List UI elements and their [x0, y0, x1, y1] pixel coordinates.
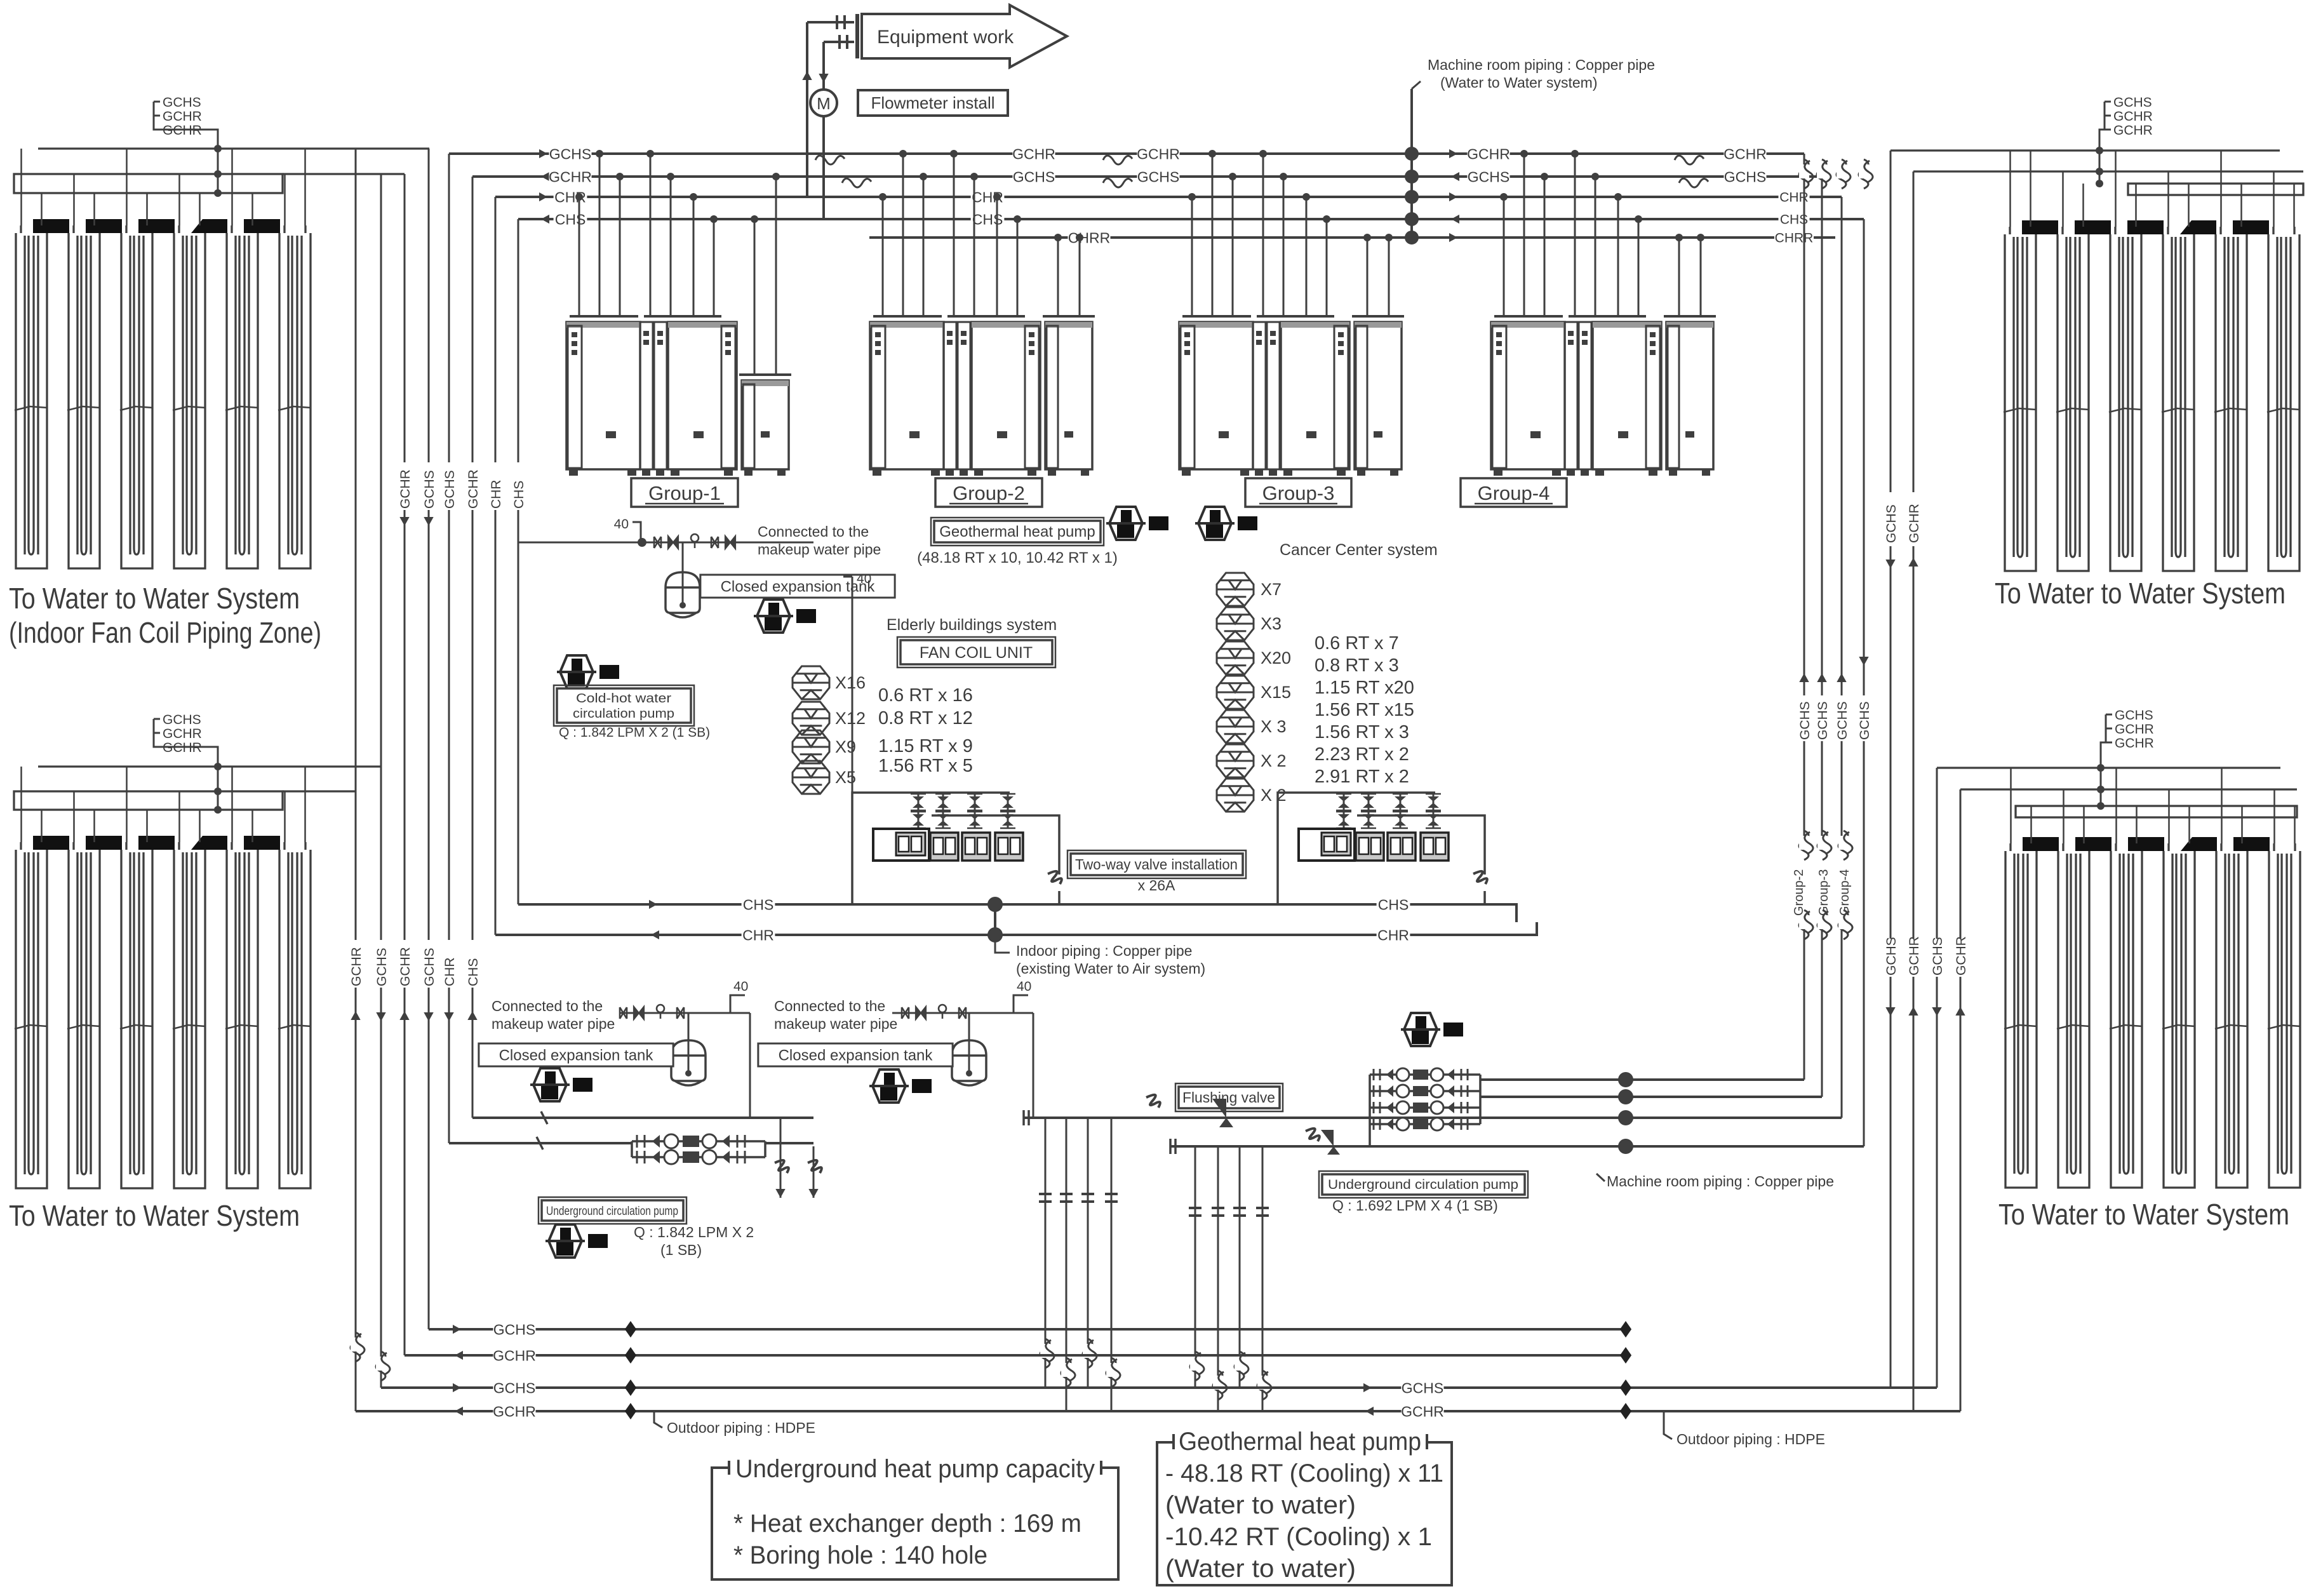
borehole field bottom-right: [1937, 708, 2301, 1188]
svg-text:makeup water pipe: makeup water pipe: [492, 1016, 615, 1032]
svg-text:GCHS: GCHS: [1402, 1379, 1443, 1396]
svg-text:CHS: CHS: [1378, 896, 1409, 913]
bus labels left: [539, 149, 547, 158]
svg-text:Two-way valve installation: Two-way valve installation: [1075, 856, 1238, 873]
svg-text:Closed expansion tank: Closed expansion tank: [499, 1047, 654, 1064]
svg-text:40: 40: [614, 517, 629, 532]
text outdoor piping right: [1664, 1411, 1672, 1439]
svg-text:GCHS: GCHS: [1013, 168, 1055, 185]
svg-text:Group-2: Group-2: [953, 482, 1025, 504]
wire underground header 2: [1170, 1145, 1864, 1148]
wire drops from header1 to bottom rows: [1045, 1118, 1047, 1388]
svg-text:Group-3: Group-3: [1817, 869, 1831, 916]
svg-text:Underground circulation pump: Underground circulation pump: [1328, 1177, 1518, 1192]
svg-text:Outdoor piping : HDPE: Outdoor piping : HDPE: [1677, 1431, 1825, 1447]
text machine room piping right: [1601, 1146, 1609, 1180]
svg-text:GCHR: GCHR: [466, 469, 481, 509]
wire bus CHRR row5: [869, 236, 1835, 239]
wire left header extensions: [449, 1142, 632, 1144]
svg-text:X12: X12: [835, 709, 866, 728]
svg-text:1.15 RT x20: 1.15 RT x20: [1315, 678, 1414, 698]
bottom row labels right: [1363, 1383, 1372, 1392]
rotated group labels on break: [1790, 848, 1805, 918]
label box Group-4: [1461, 478, 1567, 507]
pump left lower: [530, 1068, 570, 1101]
two-way valve assembly right: [1278, 793, 1435, 904]
svg-text:GCHS: GCHS: [1931, 937, 1945, 976]
svg-text:To Water to Water System: To Water to Water System: [1995, 577, 2286, 610]
svg-text:2.23 RT x 2: 2.23 RT x 2: [1315, 744, 1409, 765]
svg-text:GCHS: GCHS: [163, 713, 201, 727]
svg-text:Connected to the: Connected to the: [774, 998, 885, 1014]
svg-text:GCHR: GCHR: [1954, 936, 1969, 976]
svg-text:0.8 RT x 3: 0.8 RT x 3: [1315, 655, 1399, 676]
underground pump manifold left: [632, 1140, 765, 1143]
svg-text:2.91 RT x 2: 2.91 RT x 2: [1315, 767, 1409, 787]
svg-text:CHR: CHR: [742, 927, 774, 943]
bottom row labels left: [453, 1325, 461, 1334]
svg-text:CHS: CHS: [512, 481, 526, 509]
svg-text:GCHR: GCHR: [163, 727, 202, 741]
flushing valve label + valve: [1179, 1087, 1280, 1108]
heat pump group unit row Group-2: [870, 316, 1095, 476]
label box Group-1: [631, 478, 738, 507]
svg-text:GCHS: GCHS: [1857, 701, 1872, 740]
wire machine room lines right: [1480, 1078, 1804, 1081]
svg-text:Indoor piping : Copper pipe: Indoor piping : Copper pipe: [1016, 942, 1192, 959]
wire bottom row GCHS 1: [429, 1328, 1626, 1331]
pump above manifold right: [1401, 1013, 1440, 1046]
svg-text:Machine room piping : Copper p: Machine room piping : Copper pipe: [1607, 1173, 1834, 1190]
svg-text:CHR: CHR: [443, 958, 457, 987]
wire drops to Group-3: [1191, 197, 1193, 316]
svg-text:CHRR: CHRR: [1068, 229, 1110, 246]
svg-text:GCHS: GCHS: [2113, 95, 2152, 110]
svg-text:Equipment work: Equipment work: [877, 27, 1014, 48]
equipment work banner arrow: [857, 5, 1067, 67]
svg-text:Machine room piping : Copper p: Machine room piping : Copper pipe: [1428, 57, 1655, 73]
svg-text:GCHS: GCHS: [1835, 701, 1850, 740]
wire right corridor verticals: [1804, 154, 1805, 1080]
svg-text:GCHS: GCHS: [443, 470, 457, 509]
svg-text:CHS: CHS: [972, 211, 1003, 227]
svg-text:GCHR: GCHR: [163, 123, 202, 138]
label underground circulation pump left: [542, 1200, 683, 1221]
closed expansion tank 1: [682, 542, 684, 572]
svg-text:FAN COIL UNIT: FAN COIL UNIT: [920, 644, 1033, 662]
text outdoor piping left: [654, 1411, 662, 1428]
svg-text:* Boring hole : 140 hole: * Boring hole : 140 hole: [733, 1541, 987, 1569]
svg-text:GCHR: GCHR: [1012, 145, 1055, 162]
svg-text:makeup water pipe: makeup water pipe: [758, 541, 881, 558]
svg-text:GCHR: GCHR: [1467, 145, 1510, 162]
svg-text:GCHR: GCHR: [549, 168, 592, 185]
svg-text:X16: X16: [835, 673, 866, 692]
svg-text:GCHR: GCHR: [1907, 504, 1922, 543]
bus labels far right: [1675, 156, 1704, 164]
closed expansion tank 3: [968, 1013, 970, 1040]
svg-text:X 3: X 3: [1261, 717, 1287, 736]
svg-text:Geothermal heat pump: Geothermal heat pump: [1179, 1428, 1421, 1456]
svg-text:CHS: CHS: [466, 958, 481, 986]
wire drops to Group-1: [579, 197, 580, 316]
bus labels mid (between G1 and G2): [815, 156, 845, 164]
svg-text:Geothermal heat pump: Geothermal heat pump: [939, 523, 1095, 540]
label box Group-2: [935, 478, 1042, 507]
svg-text:(Water to water): (Water to water): [1165, 1555, 1356, 1583]
wire CHS indoor line: [518, 904, 1516, 922]
svg-text:GCHS: GCHS: [493, 1379, 535, 1396]
svg-text:To Water to Water System: To Water to Water System: [1998, 1198, 2289, 1231]
svg-text:Elderly buildings system: Elderly buildings system: [887, 616, 1057, 634]
svg-text:GCHR: GCHR: [398, 947, 413, 986]
svg-text:X20: X20: [1261, 648, 1291, 667]
svg-text:(1 SB): (1 SB): [660, 1242, 702, 1258]
svg-text:GCHR: GCHR: [1723, 145, 1767, 162]
svg-text:GCHS: GCHS: [1724, 168, 1766, 185]
svg-text:Underground circulation pump: Underground circulation pump: [546, 1205, 678, 1218]
svg-text:GCHS: GCHS: [1137, 168, 1179, 185]
text indoor piping note: [995, 935, 1010, 953]
node big junction dots on CHS/CHR: [987, 897, 1003, 912]
svg-text:GCHS: GCHS: [422, 470, 437, 509]
flowmeter M: [810, 90, 837, 116]
wire underground header 1: [1024, 1117, 1842, 1119]
svg-text:Group-2: Group-2: [1792, 869, 1806, 916]
cold-hot water circulation pump: [557, 655, 596, 688]
svg-text:CHR: CHR: [489, 480, 504, 509]
svg-text:GCHS: GCHS: [422, 948, 437, 986]
wire drops from header2 to bottom rows: [1195, 1146, 1196, 1388]
svg-text:GCHS: GCHS: [549, 145, 591, 162]
text machine room piping top note: [1412, 81, 1421, 89]
svg-text:Cancer Center system: Cancer Center system: [1280, 541, 1438, 559]
wire drops to Group-4: [1503, 197, 1505, 316]
two-way valve assembly supply riser 40: [852, 577, 853, 793]
svg-text:GCHR: GCHR: [349, 947, 364, 986]
heat pump group unit row Group-4: [1491, 316, 1716, 476]
svg-text:GCHR: GCHR: [1907, 936, 1922, 976]
label box Group-3: [1245, 478, 1351, 507]
svg-text:GCHR: GCHR: [163, 109, 202, 124]
node diamonds bottom rows: [625, 1321, 636, 1338]
svg-text:M: M: [817, 94, 831, 113]
wire bottom row GCHS 2: [381, 1386, 1937, 1389]
makeup water line lower-left: [620, 1012, 750, 1014]
svg-text:GCHR: GCHR: [493, 1403, 536, 1419]
svg-text:40: 40: [1017, 979, 1031, 994]
valve on left assembly return: [1048, 871, 1062, 884]
svg-text:0.6 RT x 7: 0.6 RT x 7: [1315, 633, 1399, 654]
svg-text:circulation pump: circulation pump: [573, 707, 674, 721]
rotated labels GCHS/GCHR quad near bottom-right field: [1883, 939, 1898, 977]
node central trunk: [1410, 89, 1413, 238]
svg-text:makeup water pipe: makeup water pipe: [774, 1016, 897, 1032]
fan coil hexagons right column: [1217, 573, 1254, 606]
note box geothermal heat pump: [1157, 1434, 1452, 1585]
svg-text:(Water to Water system): (Water to Water system): [1440, 74, 1598, 91]
svg-text:Connected to the: Connected to the: [492, 998, 603, 1014]
svg-text:GCHR: GCHR: [2115, 736, 2154, 751]
svg-text:GCHR: GCHR: [398, 469, 413, 509]
svg-text:Group-3: Group-3: [1262, 482, 1335, 504]
svg-text:GCHR: GCHR: [2113, 109, 2153, 124]
svg-text:Flushing valve: Flushing valve: [1182, 1089, 1275, 1106]
svg-text:1.15 RT x 9: 1.15 RT x 9: [878, 736, 973, 756]
svg-text:CHRR: CHRR: [1775, 231, 1814, 246]
svg-text:X3: X3: [1261, 614, 1282, 633]
svg-text:CHS: CHS: [743, 896, 774, 913]
svg-text:-10.42 RT (Cooling) x 1: -10.42 RT (Cooling) x 1: [1165, 1523, 1432, 1551]
label box geothermal heat pump: [934, 521, 1101, 542]
svg-text:GCHR: GCHR: [163, 741, 202, 755]
svg-text:(existing Water to Air system): (existing Water to Air system): [1016, 960, 1205, 977]
svg-text:GCHR: GCHR: [1401, 1403, 1444, 1419]
left corridor rotated labels upper: [397, 462, 412, 510]
borehole field top-right: [1891, 95, 2303, 571]
valve on right assembly return: [1473, 871, 1487, 884]
heat pump group unit row Group-3: [1179, 316, 1404, 476]
svg-text:To Water to Water System: To Water to Water System: [9, 582, 300, 615]
pump right lower: [869, 1070, 909, 1103]
svg-text:GCHS: GCHS: [1798, 701, 1812, 740]
svg-text:40: 40: [857, 572, 871, 586]
svg-text:CHS: CHS: [555, 211, 586, 227]
left corridor rotated labels lower + arrows: [348, 940, 363, 988]
pump below tank1: [754, 600, 793, 633]
pump symbol pair: [1106, 507, 1146, 540]
right corridor rotated labels (GC lines): [1797, 695, 1812, 741]
fan coil hexagons left column: [793, 666, 829, 699]
svg-text:GCHS: GCHS: [375, 948, 389, 986]
svg-text:Q : 1.842 LPM X 2 (1 SB): Q : 1.842 LPM X 2 (1 SB): [559, 725, 710, 740]
svg-text:X 2: X 2: [1261, 786, 1287, 805]
svg-text:GCHS: GCHS: [493, 1321, 535, 1338]
svg-text:(Indoor Fan Coil Piping Zone): (Indoor Fan Coil Piping Zone): [9, 616, 321, 649]
rotated labels GCHS/GCHR pair near top-right field: [1883, 492, 1898, 546]
svg-text:Connected to the: Connected to the: [758, 523, 869, 540]
svg-text:- 48.18 RT (Cooling) x 11: - 48.18 RT (Cooling) x 11: [1165, 1459, 1443, 1487]
svg-text:40: 40: [733, 979, 748, 994]
wire bus GCHS/GCHR row1: [449, 152, 1804, 155]
wire bus CHS row4: [518, 218, 1864, 220]
heat pump group unit row Group-1: [566, 316, 791, 476]
wire bottom row GCHR 2: [356, 1410, 1960, 1412]
svg-text:To Water to Water System: To Water to Water System: [9, 1199, 300, 1232]
svg-text:X7: X7: [1261, 580, 1282, 599]
svg-text:GCHR: GCHR: [1137, 145, 1180, 162]
svg-text:1.56 RT x 3: 1.56 RT x 3: [1315, 722, 1409, 742]
borehole field top-left: 6 vertical ground heat exchanger wells: [14, 95, 429, 568]
svg-text:GCHS: GCHS: [1884, 504, 1899, 543]
valve chain upper: [654, 537, 661, 548]
svg-text:X15: X15: [1261, 683, 1291, 702]
note box underground heat pump capacity: [712, 1461, 1118, 1579]
svg-text:Group-4: Group-4: [1838, 869, 1852, 916]
wire left corridor verticals: [355, 149, 357, 1411]
svg-text:GCHS: GCHS: [2115, 708, 2153, 723]
svg-text:Cold-hot water: Cold-hot water: [576, 692, 671, 706]
svg-text:0.6 RT x 16: 0.6 RT x 16: [878, 685, 973, 706]
closed expansion tank 2: [688, 1013, 690, 1040]
svg-text:(48.18 RT x 10, 10.42 RT x 1): (48.18 RT x 10, 10.42 RT x 1): [917, 549, 1118, 567]
wire drops to Group-2: [882, 197, 884, 316]
underground pump manifold right: [1370, 1073, 1480, 1076]
flowmeter install label box: [858, 90, 1008, 116]
svg-text:GCHS: GCHS: [1884, 937, 1899, 976]
svg-text:Flowmeter install: Flowmeter install: [871, 93, 994, 112]
svg-text:(Water to water): (Water to water): [1165, 1491, 1356, 1519]
svg-text:x 26A: x 26A: [1138, 877, 1175, 894]
pump underground left: [545, 1224, 585, 1257]
svg-text:GCHR: GCHR: [2113, 123, 2153, 138]
wire CHR indoor line: [495, 922, 1537, 935]
svg-text:Group-1: Group-1: [648, 482, 721, 504]
svg-text:1.56 RT x15: 1.56 RT x15: [1315, 700, 1414, 720]
svg-text:CHR: CHR: [1377, 927, 1409, 943]
wire makeup water line upper: [518, 542, 813, 544]
makeup water line lower-right: [892, 1012, 1033, 1014]
label underground circulation pump right: [1322, 1174, 1525, 1195]
label two-way valve installation: [1071, 854, 1243, 875]
riser 40 upper: [632, 522, 641, 542]
fan coil unit box left: [900, 640, 1052, 664]
svg-text:Q : 1.842 LPM X 2: Q : 1.842 LPM X 2: [634, 1224, 754, 1240]
bus labels right of trunk: [1449, 149, 1457, 158]
svg-text:X 2: X 2: [1261, 751, 1287, 770]
wire equipment work drops: [807, 21, 854, 23]
svg-text:GCHR: GCHR: [493, 1347, 536, 1364]
svg-text:Closed expansion tank: Closed expansion tank: [779, 1047, 934, 1064]
svg-text:GCHS: GCHS: [1468, 168, 1509, 185]
svg-text:1.56 RT x 5: 1.56 RT x 5: [878, 756, 973, 776]
borehole field bottom-left: [14, 713, 381, 1188]
svg-text:Q : 1.692 LPM X 4 (1 SB): Q : 1.692 LPM X 4 (1 SB): [1332, 1197, 1498, 1214]
svg-text:GCHS: GCHS: [1816, 701, 1830, 740]
svg-text:GCHS: GCHS: [163, 95, 201, 110]
svg-text:GCHR: GCHR: [2115, 722, 2154, 737]
svg-text:* Heat exchanger depth : 169 m: * Heat exchanger depth : 169 m: [733, 1510, 1081, 1538]
svg-text:Outdoor piping : HDPE: Outdoor piping : HDPE: [667, 1419, 815, 1436]
wire bus CHR row3: [495, 196, 1842, 198]
svg-text:0.8 RT x 12: 0.8 RT x 12: [878, 708, 973, 728]
wire bus GCHR/GCHS row2: [472, 175, 1822, 178]
svg-text:Underground heat pump capacity: Underground heat pump capacity: [735, 1455, 1095, 1483]
svg-text:Group-4: Group-4: [1478, 482, 1550, 504]
wire bottom row GCHR 1: [405, 1354, 1626, 1357]
two-way valve assembly left: [852, 793, 1010, 904]
drain valves left manifold: [780, 1118, 782, 1198]
